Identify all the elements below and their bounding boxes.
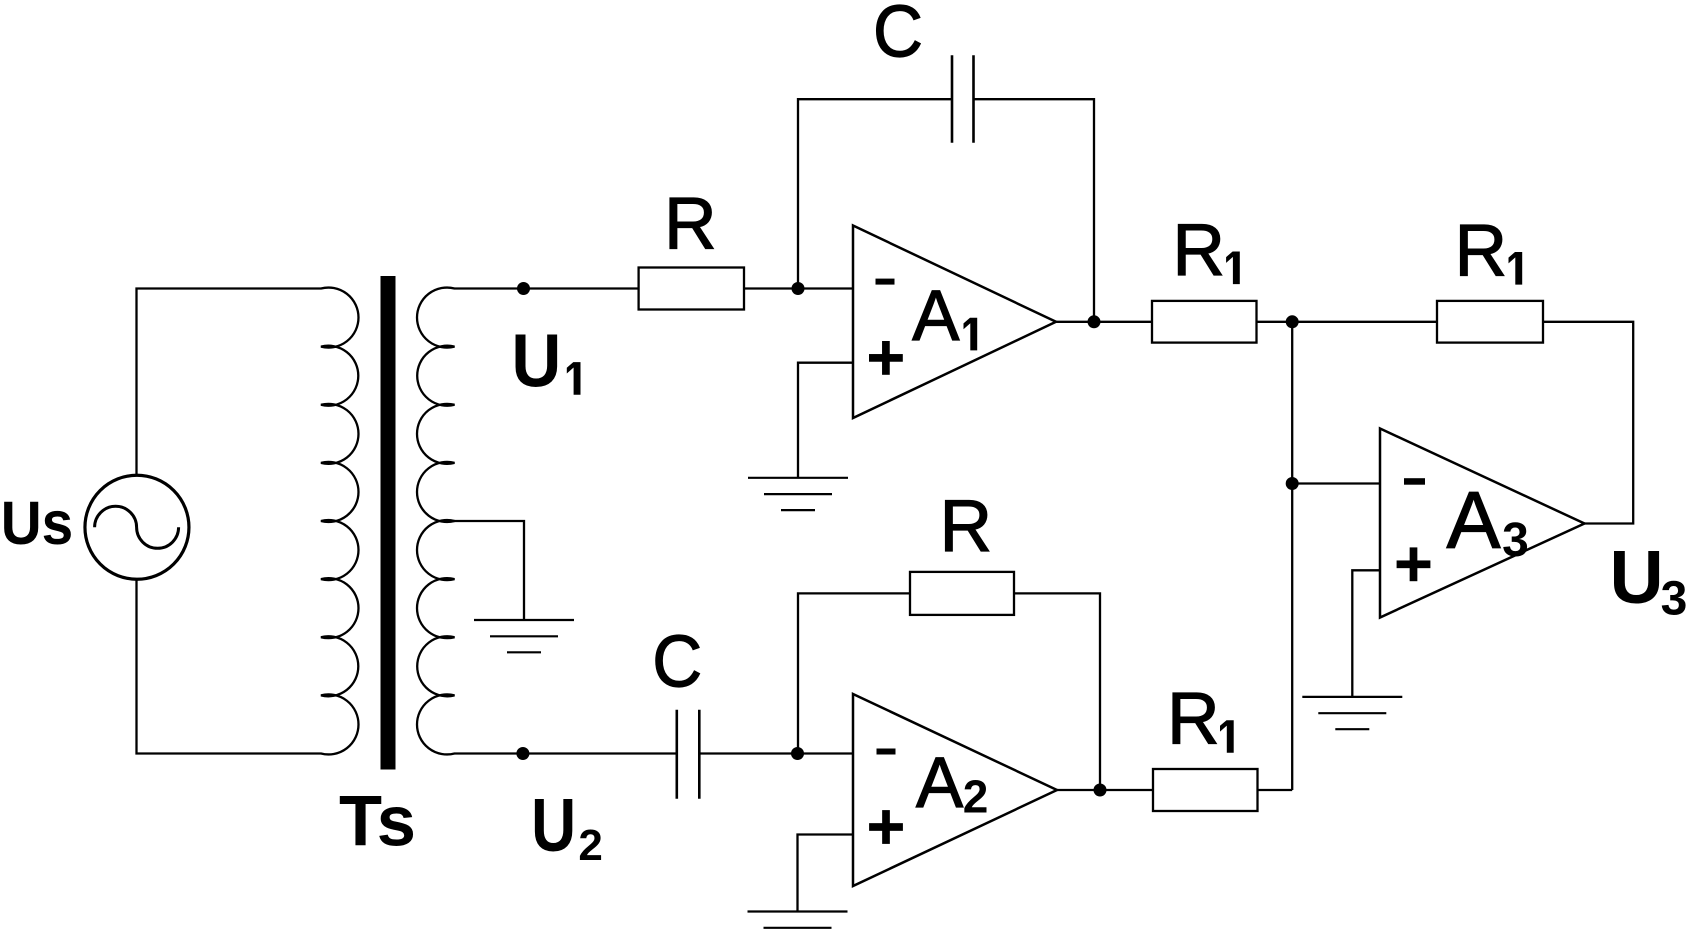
svg-text:A: A bbox=[912, 277, 960, 356]
svg-text:Ts: Ts bbox=[339, 783, 416, 862]
svg-text:C: C bbox=[652, 622, 702, 703]
svg-text:U: U bbox=[531, 783, 576, 867]
svg-text:R: R bbox=[664, 183, 717, 264]
svg-text:2: 2 bbox=[963, 771, 989, 823]
svg-text:3: 3 bbox=[1502, 514, 1529, 567]
svg-text:U: U bbox=[1610, 535, 1664, 619]
svg-text:C: C bbox=[873, 0, 923, 73]
svg-text:U: U bbox=[511, 319, 561, 403]
svg-text:2: 2 bbox=[578, 821, 602, 870]
svg-text:R: R bbox=[939, 486, 992, 567]
svg-text:R: R bbox=[1172, 210, 1225, 291]
svg-text:A: A bbox=[916, 744, 964, 823]
svg-text:A: A bbox=[1446, 476, 1500, 566]
svg-text:R: R bbox=[1454, 210, 1507, 291]
svg-text:R: R bbox=[1167, 679, 1220, 760]
svg-text:3: 3 bbox=[1661, 573, 1688, 626]
svg-text:Us: Us bbox=[1, 489, 74, 557]
